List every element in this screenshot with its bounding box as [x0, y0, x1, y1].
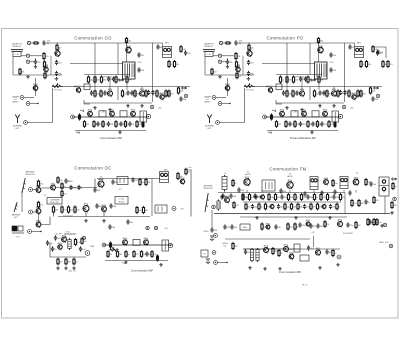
ferrite antenna label GO [12, 43, 23, 48]
svg-text:22n: 22n [302, 225, 305, 227]
transistor Tr7 GO [140, 88, 146, 97]
c27 label OC [118, 189, 121, 191]
diode D2PO [373, 87, 379, 90]
svg-text:10k: 10k [270, 197, 273, 199]
capacitor C3FM [279, 188, 286, 193]
transistor Tr10 GO [110, 109, 116, 118]
wire oc osc left [49, 243, 51, 257]
wire oc6 [32, 231, 42, 233]
diode D1GO [118, 79, 124, 82]
svg-text:Commutation OC: Commutation OC [74, 166, 111, 171]
svg-text:5n: 5n [368, 202, 370, 204]
resistor R9OC [185, 168, 191, 176]
battery B2FM [206, 259, 210, 264]
ground g2OC [84, 219, 88, 222]
transistor Tr2 PO [236, 65, 242, 73]
label 9v PO [350, 108, 354, 110]
capacitor C40FM [368, 219, 375, 224]
wire fm bf bus ext [300, 248, 340, 250]
filter box OC [117, 177, 128, 185]
resistor R21PO [285, 120, 291, 128]
resistor R15OC [74, 238, 80, 246]
capacitor C17GO [130, 90, 137, 95]
capacitor C7FM [253, 193, 261, 198]
junction FM j1 [226, 262, 227, 263]
jack J2PO [218, 102, 222, 106]
resistor R35GO [165, 89, 172, 97]
wire mid link GO [70, 63, 123, 65]
svg-text:68k: 68k [360, 203, 363, 205]
capacitor C15OC [93, 187, 101, 192]
resistor R33FM [264, 203, 271, 211]
capacitor C19PO [288, 121, 296, 126]
resistor R18OC [73, 258, 78, 266]
wire pot out PO [254, 86, 267, 88]
transistor Tr712 FM [322, 203, 326, 209]
capacitor C9GO [112, 76, 120, 81]
regl vol label GO [104, 77, 113, 79]
svg-text:56k: 56k [288, 94, 291, 96]
IF transformer MF1 PO [355, 47, 364, 58]
pu label OC [16, 237, 20, 239]
svg-text:10k: 10k [138, 210, 141, 212]
resistor R2GO [56, 44, 63, 52]
ground g2FM [248, 266, 252, 269]
wire oc osc bus [50, 256, 86, 258]
svg-text:68k: 68k [347, 93, 350, 95]
antenna label OC [25, 171, 35, 176]
wire j2PO [222, 103, 230, 105]
label +9V [101, 112, 105, 114]
resistor R2FM [332, 179, 338, 187]
wire s2aGO [21, 55, 26, 57]
ground g5OC [124, 261, 128, 264]
wire if bus a PO [276, 74, 322, 76]
resistor R33GO [115, 75, 121, 83]
resistor R16PO [326, 89, 333, 97]
resistor R12OC [74, 205, 81, 213]
ground g4FM [278, 267, 282, 270]
transistor Tr6 OC [180, 177, 186, 185]
svg-text:56k: 56k [373, 184, 376, 186]
wire oc osc join [94, 179, 96, 188]
jack BF in PO [263, 115, 267, 119]
wire j1GO [24, 97, 34, 99]
resistor R51FM [376, 218, 383, 226]
capacitor C6PO [329, 67, 337, 72]
wire fm gnd bus [214, 213, 390, 215]
svg-text:4k7: 4k7 [239, 41, 242, 43]
wire fm bus mid [243, 201, 341, 203]
transistor Tr4 FM [353, 176, 359, 186]
ground g3PO [300, 108, 304, 111]
wire s2aPO [213, 55, 218, 57]
svg-text:POT. VOL: POT. VOL [54, 90, 62, 92]
wire oc tr8 drop [103, 212, 105, 217]
svg-text:FERROX.: FERROX. [205, 46, 214, 48]
jack vol FM [389, 244, 393, 248]
phono switch block OC [12, 226, 24, 233]
capacitor C5PO [329, 52, 336, 57]
svg-text:L1: L1 [224, 173, 226, 175]
transistor Tr7 PO [332, 88, 338, 97]
ground g5FM [318, 266, 322, 269]
capacitor C4PO [247, 71, 255, 76]
electrolytic capacitor CE2PO [334, 121, 336, 128]
svg-text:22n: 22n [334, 183, 337, 185]
resistor R20PO [275, 120, 282, 128]
IF transformer MF1 GO [163, 47, 172, 58]
capacitor C12FM [254, 194, 262, 199]
svg-text:OSC.: OSC. [138, 62, 143, 64]
resistor R13OC [136, 206, 142, 214]
label 4k7 [239, 41, 242, 43]
ground g1FM [380, 224, 384, 227]
osc coil box OC [115, 197, 128, 205]
IF transformer MF1 FM [310, 177, 318, 190]
arrow marker bf GO [76, 131, 80, 133]
output box FM [294, 244, 300, 252]
resistor R14OC [142, 206, 149, 214]
resistor R1PO [225, 42, 232, 44]
resistor R6GO [44, 72, 49, 80]
switch contact S2GO [26, 54, 29, 57]
wire bus75 GO [13, 74, 62, 76]
resistor R10PO [279, 75, 284, 83]
svg-text:5n: 5n [132, 124, 134, 126]
resistor R5OC [52, 205, 59, 213]
jack J6OC [154, 226, 157, 229]
resistor R1GO [33, 42, 40, 44]
svg-text:5n: 5n [316, 197, 318, 199]
ground g7GO [34, 65, 38, 68]
svg-text:47n: 47n [130, 222, 133, 224]
wire vrGO [35, 78, 37, 96]
transistor Tr11 GO [131, 109, 137, 118]
svg-text:M 19,2 MC: M 19,2 MC [50, 202, 59, 204]
svg-text:10k: 10k [380, 52, 383, 54]
svg-text:68k: 68k [21, 72, 24, 74]
wire if bus b PO [267, 86, 382, 88]
transistor Tr1 OC [36, 185, 42, 194]
transistor Tr3 GO [33, 83, 39, 92]
jack BF in OC [102, 243, 106, 247]
transistor Tr74 FM [270, 203, 274, 209]
ground g1PO [247, 77, 251, 80]
wire vrPO [227, 78, 229, 96]
ground g6FM [336, 263, 340, 266]
wire fm drop 6 [355, 190, 357, 193]
resistor R34PO [337, 89, 344, 97]
bandfilter box FM [262, 180, 275, 191]
coil L1 FM [222, 175, 227, 191]
resistor R23FM [355, 221, 362, 229]
wire gGO [84, 100, 90, 104]
resistor R7GO [125, 37, 131, 44]
resistor R311FM [316, 203, 322, 211]
transistor Tr10 OC [123, 237, 129, 246]
svg-text:56k: 56k [119, 254, 122, 256]
jack J1FM [212, 205, 216, 209]
wire fm drop 3 [289, 190, 291, 193]
wire s3bPO [222, 61, 226, 63]
capacitor C13OC [64, 178, 72, 183]
resistor R25FM [373, 218, 379, 226]
antenna label GO [13, 125, 22, 130]
jack J5OC [146, 226, 149, 229]
resistor R20GO [83, 120, 89, 128]
oscillator coil box GO [123, 62, 136, 79]
wire v1PO [309, 87, 311, 100]
svg-text:1M: 1M [320, 80, 323, 82]
capacitor C20PO [376, 49, 383, 54]
capacitor C41FM [298, 222, 305, 227]
svg-text:P.U.: P.U. [223, 245, 227, 247]
capacitor C9OC [145, 251, 153, 256]
capacitor C3GO [55, 60, 63, 65]
svg-text:C27: C27 [118, 189, 121, 191]
svg-text:Commutation GO: Commutation GO [74, 36, 112, 41]
capacitor C52FM [333, 189, 336, 194]
resistor R15PO [313, 89, 319, 97]
jack J2OC [29, 210, 33, 214]
regl box FM [240, 224, 250, 230]
resistor R10FM [233, 201, 240, 209]
svg-text:EXT.: EXT. [208, 128, 212, 130]
resistor R12PO [292, 75, 298, 83]
output transformer OC [162, 240, 169, 251]
svg-text:REGL: REGL [243, 227, 248, 229]
transistor Tr2 FM [287, 179, 293, 189]
svg-text:22n: 22n [141, 182, 144, 184]
capacitor C11OC [46, 240, 53, 245]
capacitor C2FM [237, 187, 245, 192]
capacitor C15PO [282, 90, 289, 95]
svg-text:REGL.VOL: REGL.VOL [296, 77, 305, 79]
label Commutation BF OC [131, 269, 154, 273]
resistor R21GO [93, 120, 100, 128]
svg-text:1k: 1k [63, 186, 65, 188]
capacitor C29FM [303, 204, 310, 209]
jack J7OC [82, 236, 85, 239]
wire bf bus PO [264, 116, 340, 118]
wire fm bat [217, 262, 227, 264]
capacitor C1OC [69, 185, 76, 190]
title Commutation FM [269, 167, 306, 172]
ground g10FM [328, 216, 332, 219]
resistor R3GO [43, 52, 49, 60]
resistor R3OC [61, 190, 68, 198]
svg-text:68k: 68k [73, 188, 76, 190]
tone box FM [300, 255, 309, 261]
wire v1GO [117, 87, 119, 100]
wire if bus c PO [276, 102, 344, 104]
svg-text:4k7: 4k7 [47, 41, 50, 43]
svg-text:56k: 56k [254, 207, 257, 209]
resistor R3FM [365, 178, 371, 186]
resistor R25GO [136, 120, 143, 128]
transistor Tr11 OC [144, 237, 150, 246]
svg-text:FERROX.: FERROX. [13, 46, 22, 48]
label +9V [180, 209, 184, 211]
wire if bus b GO [75, 86, 190, 88]
resistor R17GO [156, 89, 163, 97]
capacitor C4GO [55, 71, 63, 76]
resistor R24FM [367, 218, 374, 226]
resistor R8GO [168, 60, 175, 68]
svg-text:47n: 47n [299, 93, 302, 95]
jack det FM [393, 197, 397, 201]
capacitor C51FM [320, 190, 323, 195]
electrolytic capacitor CE1OC [109, 241, 111, 248]
wire if bus a GO [84, 74, 130, 76]
wire mf feed PO [345, 43, 355, 47]
wire left rail PO [204, 56, 206, 75]
jack J3GO [24, 121, 28, 125]
capacitor C26FM [244, 249, 251, 254]
jack out FM [337, 255, 341, 259]
wire oc3 [56, 187, 97, 189]
transistor Tr63 FM [261, 194, 265, 200]
78mc label OC [90, 246, 96, 248]
IF transformer MF2 FM [340, 177, 348, 189]
resistor R9PO [365, 60, 371, 68]
svg-text:1M: 1M [247, 207, 250, 209]
svg-text:47n: 47n [45, 56, 48, 58]
ground g1OC [102, 219, 106, 222]
wire ifv4 PO [333, 87, 335, 92]
wire left rail GO [12, 56, 14, 75]
resistor R27FM [272, 247, 279, 255]
antenna A1PO [207, 115, 211, 124]
resistor R13GO [126, 75, 132, 83]
coil T1b FM [256, 248, 259, 262]
jack J4FM [214, 261, 218, 265]
capacitor C2PO [226, 59, 233, 64]
resistor R14FM [268, 193, 274, 201]
resistor R4OC [37, 201, 43, 209]
wire j1PO [216, 97, 226, 99]
resistor R6OC [139, 178, 145, 186]
wire supply drop a GO [94, 43, 96, 75]
capacitor C3OC [111, 179, 118, 184]
m label FM [302, 285, 308, 287]
capacitor C24FM [316, 223, 324, 228]
antenna label FM [203, 185, 213, 190]
capacitor C14GO [128, 121, 134, 126]
ground g8FM [255, 216, 259, 219]
transistor Tr2 GO [44, 65, 50, 73]
jack +9V GO [150, 105, 154, 109]
ground g9FM [294, 216, 298, 219]
wire j2GO [30, 103, 38, 105]
wire oc2 [42, 187, 51, 189]
capacitor C7GO [156, 44, 163, 49]
resistor R4GO [43, 60, 48, 68]
resistor R30FM [245, 203, 251, 211]
svg-text:22n: 22n [187, 53, 190, 55]
resistor R36FM [284, 203, 291, 211]
svg-text:POT. VOL: POT. VOL [246, 90, 254, 92]
svg-text:ECOUTEUR: ECOUTEUR [343, 233, 353, 235]
resistor R24GO [124, 120, 129, 128]
svg-text:68k: 68k [310, 197, 313, 199]
wire bf gnd bus PO [267, 130, 338, 132]
switch contact S3GO [26, 60, 29, 63]
svg-text:47n: 47n [128, 80, 131, 82]
svg-text:OSC.: OSC. [330, 62, 335, 64]
svg-text:MF.1: MF.1 [357, 43, 361, 45]
capacitor C21FM [251, 204, 258, 209]
resistor R35PO [357, 89, 362, 97]
capacitor C20FM [223, 224, 230, 229]
resistor R32PO [292, 89, 299, 97]
jack J2GO [26, 102, 30, 106]
label Preamplification BF PO [290, 136, 316, 140]
svg-text:MF1: MF1 [188, 169, 191, 171]
output transformer PO [332, 111, 339, 122]
svg-text:ARRET: ARRET [12, 100, 19, 103]
capacitor C11GO [147, 90, 153, 95]
wire fm bus top [218, 192, 345, 194]
svg-text:15k: 15k [170, 94, 173, 96]
capacitor C2OC [77, 185, 83, 190]
wire r4aPO [235, 59, 237, 62]
IF transformer MF OC [160, 172, 169, 183]
wire ifv2 GO [109, 77, 111, 91]
oscillator coil box PO [315, 62, 328, 79]
capacitor C21FM [230, 224, 238, 229]
resistor R18PO [360, 89, 367, 97]
resistor R20FM [261, 222, 267, 230]
resistor R115FM [339, 193, 345, 201]
osc transistor label OC [98, 177, 103, 181]
svg-text:1k: 1k [338, 207, 340, 209]
resistor R18FM [294, 193, 299, 201]
label POT. VOL [246, 90, 254, 92]
svg-text:1M: 1M [326, 224, 329, 226]
wire s2bPO [222, 55, 234, 57]
resistor R5PO [211, 68, 218, 76]
driver box PO [291, 111, 298, 117]
transistor Tr1 PO [247, 48, 253, 57]
svg-text:TELESCOP.: TELESCOP. [203, 188, 213, 190]
svg-text:56k: 56k [289, 227, 292, 229]
ground g8PO [218, 75, 222, 78]
resistor values OC [63, 216, 73, 218]
resistor R33PO [307, 75, 314, 83]
capacitor C8FM [369, 181, 376, 186]
capacitor C110FM [306, 194, 313, 199]
resistor R113FM [326, 193, 332, 201]
label Commutation BF FM [279, 270, 302, 274]
wire fm drop 5 [343, 190, 345, 193]
jack J5FM [383, 223, 387, 227]
svg-text:MF.1: MF.1 [164, 170, 168, 172]
jack J4PO [376, 94, 380, 98]
ratio detector transformer FM [379, 177, 389, 196]
svg-text:7,8MC: 7,8MC [90, 246, 96, 248]
wire s2bGO [30, 55, 42, 57]
svg-text:15k: 15k [128, 41, 131, 43]
wire oc bf bus [103, 244, 172, 246]
tr2 label FM [287, 174, 292, 178]
svg-text:56k: 56k [229, 62, 232, 64]
svg-text:10k: 10k [59, 180, 62, 182]
resistor R4FM [392, 182, 398, 190]
capacitor C213FM [329, 204, 337, 209]
capacitor C25FM [277, 204, 285, 209]
